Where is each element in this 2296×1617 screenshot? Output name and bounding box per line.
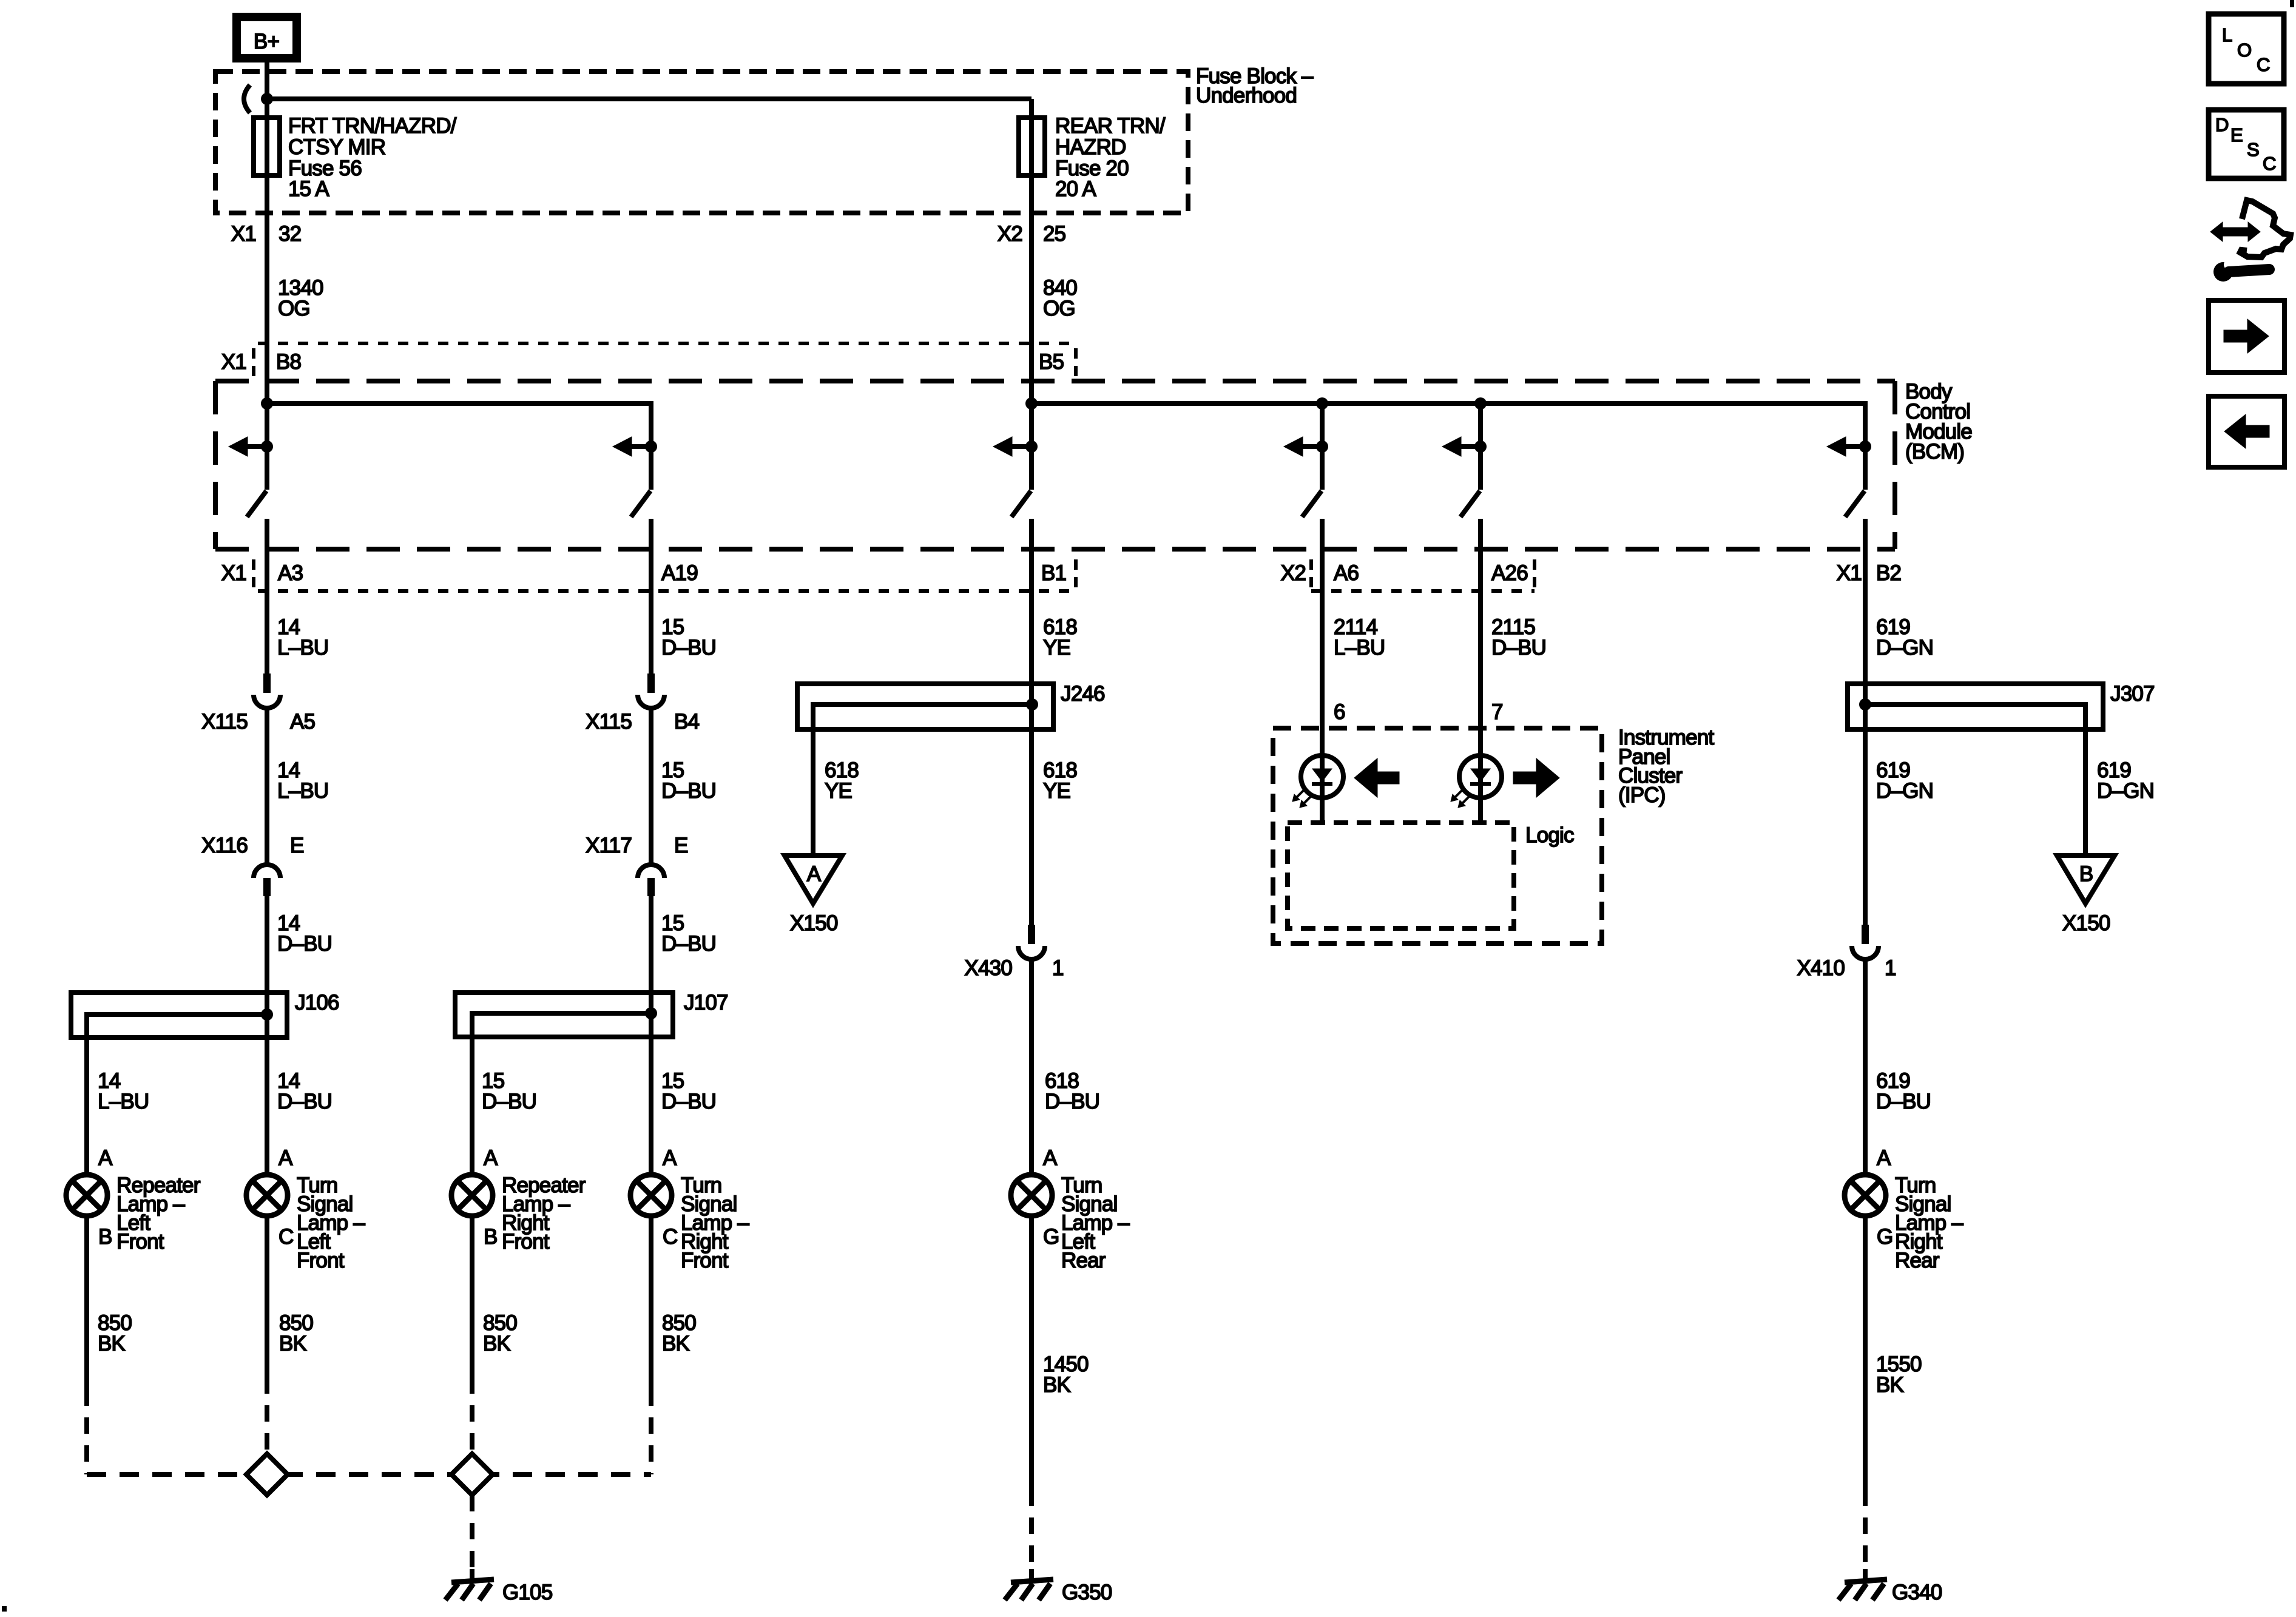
svg-text:E: E xyxy=(2230,124,2243,146)
arrow output B2 xyxy=(1859,441,1871,453)
icon vehicle outline xyxy=(2240,200,2291,257)
wire dashed ground bus xyxy=(87,1472,651,1477)
svg-text:X115: X115 xyxy=(201,710,248,734)
svg-text:L–BU: L–BU xyxy=(98,1090,149,1113)
arrow output A26 xyxy=(1474,441,1487,453)
power symbol B+ box xyxy=(237,17,297,58)
svg-text:6: 6 xyxy=(1334,700,1345,724)
svg-text:C: C xyxy=(2263,153,2276,174)
connector mark right B1 xyxy=(1074,559,1078,590)
svg-text:Front: Front xyxy=(681,1249,729,1272)
svg-text:A: A xyxy=(279,1146,293,1170)
svg-text:YE: YE xyxy=(825,779,852,803)
wire lamp LF turn down xyxy=(265,1216,269,1377)
arrow output B1 xyxy=(1025,441,1038,453)
svg-text:X116: X116 xyxy=(201,834,248,857)
svg-text:A: A xyxy=(807,862,822,886)
wire X117 to J107 xyxy=(649,896,653,1175)
svg-text:1: 1 xyxy=(1052,956,1064,980)
wire BCM bus left xyxy=(267,403,651,447)
wire dashed to G340 xyxy=(1863,1490,1868,1569)
svg-text:G: G xyxy=(1877,1225,1893,1249)
svg-text:X2: X2 xyxy=(998,222,1022,246)
svg-text:FRT TRN/HAZRD/: FRT TRN/HAZRD/ xyxy=(288,114,457,138)
LED indicator left turn xyxy=(1301,755,1343,798)
wire B2 down to J307 xyxy=(1863,519,1868,925)
wire fuse56 to BCM xyxy=(265,175,269,403)
svg-text:X1: X1 xyxy=(231,222,256,246)
wire dashed to G350 xyxy=(1029,1490,1034,1569)
connector X116 E socket xyxy=(254,865,280,878)
svg-text:J106: J106 xyxy=(295,991,339,1014)
wire lamp RF repeater down xyxy=(470,1216,474,1377)
svg-text:Front: Front xyxy=(502,1230,550,1254)
icon next box (right arrow) xyxy=(2209,300,2284,373)
switch A6 in BCM xyxy=(1320,447,1325,490)
direction arrow left (solid) xyxy=(1354,758,1399,797)
connector mark left X2 xyxy=(1309,559,1313,590)
svg-text:L–BU: L–BU xyxy=(277,779,328,803)
ground G350 xyxy=(1029,1569,1034,1581)
wire A19 down to X115 xyxy=(649,519,653,675)
junction bus right xyxy=(1025,397,1038,410)
svg-text:A26: A26 xyxy=(1491,561,1528,585)
svg-text:A: A xyxy=(663,1146,677,1170)
wire dashed c3 xyxy=(470,1377,474,1455)
svg-text:32: 32 xyxy=(279,222,301,246)
svg-text:B4: B4 xyxy=(674,710,700,734)
svg-text:X150: X150 xyxy=(790,911,838,935)
svg-text:BK: BK xyxy=(98,1332,126,1355)
icon double arrow xyxy=(2210,222,2260,241)
junction J307 xyxy=(1859,698,1871,711)
wire dashed c2 xyxy=(265,1377,269,1455)
svg-text:CTSY MIR: CTSY MIR xyxy=(288,135,385,159)
IPC dashed box xyxy=(1273,728,1602,944)
svg-text:L–BU: L–BU xyxy=(1334,636,1385,660)
svg-text:A: A xyxy=(484,1146,498,1170)
svg-text:B: B xyxy=(2079,862,2093,886)
BCM dashed box xyxy=(215,379,1895,383)
svg-text:X1: X1 xyxy=(1837,561,1862,585)
lamp turn signal left front xyxy=(246,1175,288,1216)
svg-text:D–BU: D–BU xyxy=(1045,1090,1099,1113)
wire lamp RF turn down xyxy=(649,1216,653,1389)
svg-text:G350: G350 xyxy=(1062,1581,1112,1604)
wire dashed c4 xyxy=(649,1389,653,1474)
svg-text:(BCM): (BCM) xyxy=(1905,440,1964,464)
connector X430 pin xyxy=(1028,925,1035,944)
svg-text:B: B xyxy=(98,1225,112,1249)
svg-text:B5: B5 xyxy=(1039,350,1064,374)
svg-text:Rear: Rear xyxy=(1895,1249,1940,1272)
svg-text:E: E xyxy=(674,834,688,857)
switch A26 in BCM xyxy=(1478,447,1483,490)
connector row dotted line A6-A26 xyxy=(1311,589,1535,593)
svg-text:D–BU: D–BU xyxy=(1491,636,1546,660)
svg-text:D–BU: D–BU xyxy=(277,1090,332,1113)
svg-text:15 A: 15 A xyxy=(288,177,329,201)
wire bus drop B5 col xyxy=(1029,403,1034,447)
connector X117 E socket xyxy=(638,865,664,878)
junction bus A26 xyxy=(1474,397,1487,410)
switch B1 in BCM xyxy=(1029,447,1034,490)
svg-text:J246: J246 xyxy=(1061,682,1105,706)
svg-text:X115: X115 xyxy=(586,710,632,734)
svg-text:D–GN: D–GN xyxy=(1876,636,1933,660)
wire X115 to X116 xyxy=(265,708,269,864)
connector mark right A26 xyxy=(1533,559,1536,590)
lamp repeater left front xyxy=(66,1175,107,1216)
arrow output A3 xyxy=(261,441,273,453)
svg-text:S: S xyxy=(2247,139,2259,160)
svg-text:L: L xyxy=(2222,24,2232,46)
svg-text:OG: OG xyxy=(278,297,310,320)
wire through fuse 56 xyxy=(265,118,269,175)
svg-text:YE: YE xyxy=(1043,636,1070,660)
svg-text:D–BU: D–BU xyxy=(1876,1090,1931,1113)
svg-text:X1: X1 xyxy=(221,561,246,585)
wire J307 branch xyxy=(1865,704,2085,857)
fuse block underhood dashed box xyxy=(215,72,1188,213)
svg-text:HAZRD: HAZRD xyxy=(1055,135,1126,159)
svg-text:A: A xyxy=(98,1146,113,1170)
svg-text:B2: B2 xyxy=(1876,561,1901,585)
svg-text:B1: B1 xyxy=(1041,561,1066,585)
svg-text:B8: B8 xyxy=(276,350,301,374)
svg-text:C: C xyxy=(663,1225,677,1249)
svg-text:X117: X117 xyxy=(586,834,632,857)
wire J107 branch xyxy=(472,1013,651,1175)
connector X410 pin xyxy=(1862,925,1869,944)
svg-text:G: G xyxy=(1043,1225,1059,1249)
svg-text:B: B xyxy=(484,1225,498,1249)
wire lamp LR down xyxy=(1029,1216,1034,1490)
splice diamond on ground bus left xyxy=(246,1454,288,1495)
junction J106 xyxy=(261,1008,273,1021)
wire X115 to X117 xyxy=(649,708,653,864)
svg-text:X410: X410 xyxy=(1797,956,1845,980)
svg-text:D–GN: D–GN xyxy=(1876,779,1933,803)
svg-text:C: C xyxy=(279,1225,293,1249)
svg-text:A: A xyxy=(1877,1146,1891,1170)
arrow output A19 xyxy=(645,441,657,453)
wire B+ feed down xyxy=(265,58,269,118)
direction arrow right (solid) xyxy=(1513,758,1559,797)
off-page triangle A X150 xyxy=(785,856,842,903)
connector mark left X1 xyxy=(252,348,255,379)
svg-text:Front: Front xyxy=(297,1249,345,1272)
svg-text:D–BU: D–BU xyxy=(661,932,716,956)
svg-text:D–BU: D–BU xyxy=(661,779,716,803)
lamp turn signal right front xyxy=(630,1175,672,1216)
svg-text:7: 7 xyxy=(1491,700,1503,724)
svg-text:BK: BK xyxy=(662,1332,690,1355)
connector mark right B5 xyxy=(1074,348,1078,379)
wire J246 branch xyxy=(813,704,1032,857)
junction J246 xyxy=(1026,698,1038,711)
LED indicator right turn xyxy=(1459,755,1502,798)
svg-text:Front: Front xyxy=(116,1230,164,1254)
svg-text:X2: X2 xyxy=(1281,561,1306,585)
svg-text:BK: BK xyxy=(483,1332,511,1355)
switch A19 in BCM xyxy=(649,447,653,490)
ground G105 xyxy=(470,1569,474,1581)
svg-text:X1: X1 xyxy=(221,350,246,374)
svg-text:D–BU: D–BU xyxy=(661,636,716,660)
splice pack J107 xyxy=(455,993,673,1037)
svg-text:J107: J107 xyxy=(684,991,728,1014)
splice pack J106 xyxy=(71,993,287,1038)
lamp turn signal left rear xyxy=(1011,1175,1052,1216)
connector row dotted line B8-B5 xyxy=(258,342,1072,345)
arrow output A6 xyxy=(1316,441,1328,453)
splice diamond on ground bus right xyxy=(451,1454,493,1495)
svg-text:X430: X430 xyxy=(964,956,1012,980)
fuse F20 REAR TRN/HAZRD xyxy=(1019,118,1045,175)
wire bus drop A6 xyxy=(1320,403,1325,447)
splice pack J307 xyxy=(1848,684,2103,729)
svg-text:A3: A3 xyxy=(278,561,303,585)
wire bus drop A26 xyxy=(1478,403,1483,447)
svg-text:X150: X150 xyxy=(2062,911,2110,935)
svg-text:BK: BK xyxy=(1876,1373,1904,1397)
svg-text:1: 1 xyxy=(1885,956,1896,980)
svg-text:OG: OG xyxy=(1043,297,1075,320)
svg-text:D–GN: D–GN xyxy=(2097,779,2154,803)
svg-text:A19: A19 xyxy=(661,561,698,585)
ground G340 xyxy=(1863,1569,1868,1581)
svg-text:Rear: Rear xyxy=(1061,1249,1106,1272)
svg-text:BK: BK xyxy=(279,1332,307,1355)
svg-text:G340: G340 xyxy=(1892,1581,1942,1604)
icon back box (left arrow) xyxy=(2209,396,2284,467)
logic dashed box xyxy=(1288,823,1514,928)
svg-text:Underhood: Underhood xyxy=(1196,84,1297,107)
wire rear fuse drop xyxy=(1029,99,1034,118)
splice pack J246 xyxy=(797,684,1053,729)
svg-text:Logic: Logic xyxy=(1525,823,1574,847)
wire B+ tee to rear fuse column xyxy=(267,96,1032,101)
junction bus A6 xyxy=(1316,397,1328,410)
junction bus left xyxy=(261,397,273,410)
svg-text:A: A xyxy=(1043,1146,1058,1170)
connector row dotted line A3-B1 xyxy=(258,589,1072,593)
wire B1 down to J246 xyxy=(1029,519,1034,925)
wire A26 to IPC xyxy=(1478,519,1483,823)
svg-text:L–BU: L–BU xyxy=(277,636,328,660)
page corner mark top right xyxy=(2290,0,2294,7)
svg-text:(IPC): (IPC) xyxy=(1618,783,1666,807)
fuse F56 FRT TRN/HAZRD/CTSY MIR xyxy=(254,118,280,175)
svg-text:REAR TRN/: REAR TRN/ xyxy=(1055,114,1166,138)
wire bus drop B8 col xyxy=(265,403,269,447)
icon DESC box xyxy=(2209,110,2284,178)
svg-text:C: C xyxy=(2257,54,2270,75)
page corner mark bottom left xyxy=(2,1606,7,1612)
svg-text:D–BU: D–BU xyxy=(661,1090,716,1113)
svg-text:E: E xyxy=(290,834,304,857)
svg-text:D–BU: D–BU xyxy=(277,932,332,956)
switch A3 in BCM xyxy=(265,447,269,490)
lamp repeater right front xyxy=(451,1175,493,1216)
icon wrench xyxy=(2213,262,2233,282)
wire A6 to IPC xyxy=(1320,519,1325,823)
wire lamp RR down xyxy=(1863,1216,1868,1490)
wire A3 down to X115 xyxy=(265,519,269,675)
svg-text:B+: B+ xyxy=(254,30,279,53)
wire dashed to G105 xyxy=(470,1495,474,1569)
svg-text:O: O xyxy=(2237,39,2251,61)
svg-text:D–BU: D–BU xyxy=(482,1090,536,1113)
wire X430 to lamp xyxy=(1029,959,1034,1175)
wire dashed c1 xyxy=(84,1389,89,1474)
off-page triangle B X150 xyxy=(2057,856,2115,903)
svg-text:D: D xyxy=(2215,114,2229,135)
wire lamp LF repeater down xyxy=(84,1216,89,1389)
junction B+ tee xyxy=(261,93,273,105)
svg-text:J307: J307 xyxy=(2110,682,2155,706)
wire through fuse 20 xyxy=(1029,118,1034,175)
svg-text:YE: YE xyxy=(1043,779,1070,803)
switch B2 in BCM xyxy=(1863,447,1868,490)
connector mark left X1 A3 xyxy=(252,559,255,590)
svg-text:G105: G105 xyxy=(502,1581,552,1604)
svg-text:A5: A5 xyxy=(290,710,315,734)
icon LOC box xyxy=(2209,14,2284,84)
clip symbol at fuse block entry xyxy=(244,85,250,113)
svg-text:BK: BK xyxy=(1043,1373,1071,1397)
wire X116 to J106 xyxy=(265,896,269,1175)
wire J106 branch xyxy=(87,1014,267,1175)
lamp turn signal right rear xyxy=(1845,1175,1886,1216)
wire X410 to lamp xyxy=(1863,959,1868,1175)
svg-text:20 A: 20 A xyxy=(1055,177,1096,201)
connector X115 B4 pin xyxy=(647,673,655,693)
wire BCM bus right xyxy=(1032,403,1865,447)
svg-text:25: 25 xyxy=(1043,222,1065,246)
connector X115 A5 pin xyxy=(263,673,271,693)
svg-text:A6: A6 xyxy=(1334,561,1359,585)
junction J107 xyxy=(645,1007,657,1019)
wire fuse20 to BCM xyxy=(1029,175,1034,403)
